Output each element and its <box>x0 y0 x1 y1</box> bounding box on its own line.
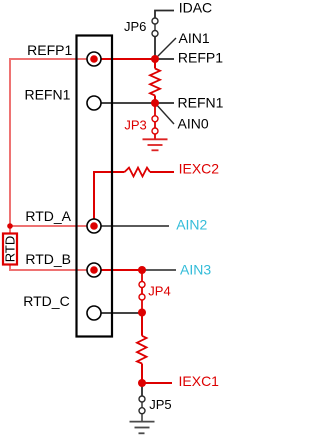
svg-text:AIN1: AIN1 <box>179 30 210 46</box>
wire RTD_B pin to AIN3 junction (red) <box>94 269 142 271</box>
svg-text:JP5: JP5 <box>149 397 171 412</box>
wire junction to JP5 (black) <box>141 383 143 396</box>
ground GND2 (black) <box>130 414 155 434</box>
svg-text:REFP1: REFP1 <box>27 42 72 58</box>
wire AIN3 lead (gray) <box>142 269 176 271</box>
svg-text:JP4: JP4 <box>148 284 170 299</box>
junction RTD_C <box>138 309 146 317</box>
pin RTD_A <box>87 219 101 233</box>
wire RTD_A left (light red) <box>10 225 94 227</box>
pin REFN1 <box>87 96 101 110</box>
wire REFP1 left loop (light red) <box>10 59 94 226</box>
wire REFN1 junction to label (black) <box>155 102 174 104</box>
jumper JP4 (red) <box>139 270 145 313</box>
jumper JP6 <box>152 18 158 37</box>
wire RTD box to RTD_B line (light red) <box>10 265 94 271</box>
svg-text:IEXC1: IEXC1 <box>179 373 220 389</box>
svg-text:AIN0: AIN0 <box>178 116 209 132</box>
svg-text:JP6: JP6 <box>124 19 146 34</box>
wire IEXC1 lead to label (red) <box>142 382 172 384</box>
junction IEXC1 <box>138 379 146 387</box>
jumper JP3 (red) <box>152 103 158 139</box>
pin REFP1 <box>87 52 101 66</box>
svg-text:REFN1: REFN1 <box>24 87 70 103</box>
jumper JP5 <box>139 396 145 414</box>
wire AIN2 lead (gray) <box>101 225 169 227</box>
wire REFP1 junction to label (black) <box>155 58 174 60</box>
wire RTD_C pin to junction (dark) <box>101 312 142 314</box>
svg-text:AIN2: AIN2 <box>176 216 207 232</box>
resistor IEXC2 (horizontal) <box>125 168 151 177</box>
svg-text:IEXC2: IEXC2 <box>179 161 220 177</box>
wire RTD junction to RTD box (light red) <box>9 226 11 234</box>
wire JP6 to IDAC (black) <box>155 11 174 19</box>
wire REFP1 pin to junction (red) <box>94 58 155 60</box>
svg-text:AIN3: AIN3 <box>180 262 211 278</box>
junction RTD_A left <box>7 223 13 229</box>
svg-text:REFP1: REFP1 <box>178 50 223 66</box>
junction REFN1 <box>151 99 159 107</box>
resistor IEXC1 (vertical) <box>137 313 147 384</box>
svg-text:RTD_B: RTD_B <box>25 251 71 267</box>
connector J1 <box>77 36 113 337</box>
svg-text:JP3: JP3 <box>124 118 146 133</box>
svg-text:RTD_C: RTD_C <box>23 293 69 309</box>
wire AIN1 diagonal <box>155 38 176 59</box>
wire IEXC2 vertical into connector (red) <box>94 172 125 226</box>
wire IEXC2 lead to label <box>150 171 174 173</box>
ground GND1 (red) <box>143 139 168 150</box>
svg-text:RTD: RTD <box>3 236 18 262</box>
wire REFN1 pin to junction (black) <box>101 102 155 104</box>
svg-text:RTD_A: RTD_A <box>25 208 71 224</box>
junction REFP1 <box>151 55 159 63</box>
pin RTD_C <box>87 306 101 320</box>
svg-text:REFN1: REFN1 <box>178 95 224 111</box>
wire JP6 to REFP1 junction (black) <box>154 37 156 60</box>
junction AIN3 <box>138 266 146 274</box>
wire AIN0 diagonal <box>155 103 174 124</box>
svg-text:IDAC: IDAC <box>179 0 212 16</box>
resistor RTD (red box, rotated label) <box>3 234 18 265</box>
resistor REF (vertical between REFP1 and REFN1) <box>150 59 160 103</box>
pin RTD_B <box>87 263 101 277</box>
